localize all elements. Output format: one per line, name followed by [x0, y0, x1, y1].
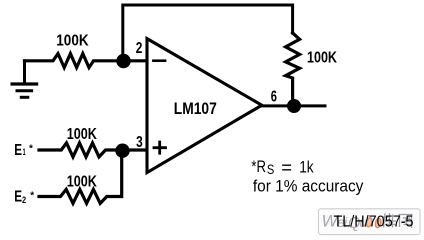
svg-text:=: = [281, 156, 292, 177]
svg-text:100K: 100K [67, 173, 98, 190]
svg-text:E: E [14, 142, 22, 159]
svg-text:*: * [29, 144, 33, 155]
svg-text:*: * [30, 191, 34, 202]
svg-text:100K: 100K [56, 33, 89, 50]
svg-text:*R: *R [251, 157, 266, 176]
svg-text:for 1% accuracy: for 1% accuracy [253, 177, 364, 196]
svg-text:LM107: LM107 [174, 100, 217, 118]
svg-text:1k: 1k [299, 159, 314, 177]
svg-text:100K: 100K [67, 126, 98, 143]
svg-text:1: 1 [23, 147, 26, 158]
svg-text:6: 6 [271, 89, 277, 106]
svg-text:100K: 100K [307, 50, 338, 67]
svg-text:TL/H/7057-5: TL/H/7057-5 [334, 214, 414, 231]
svg-text:2: 2 [22, 195, 26, 206]
svg-text:2: 2 [136, 40, 143, 57]
svg-text:S: S [267, 162, 274, 177]
svg-text:3: 3 [136, 134, 143, 151]
